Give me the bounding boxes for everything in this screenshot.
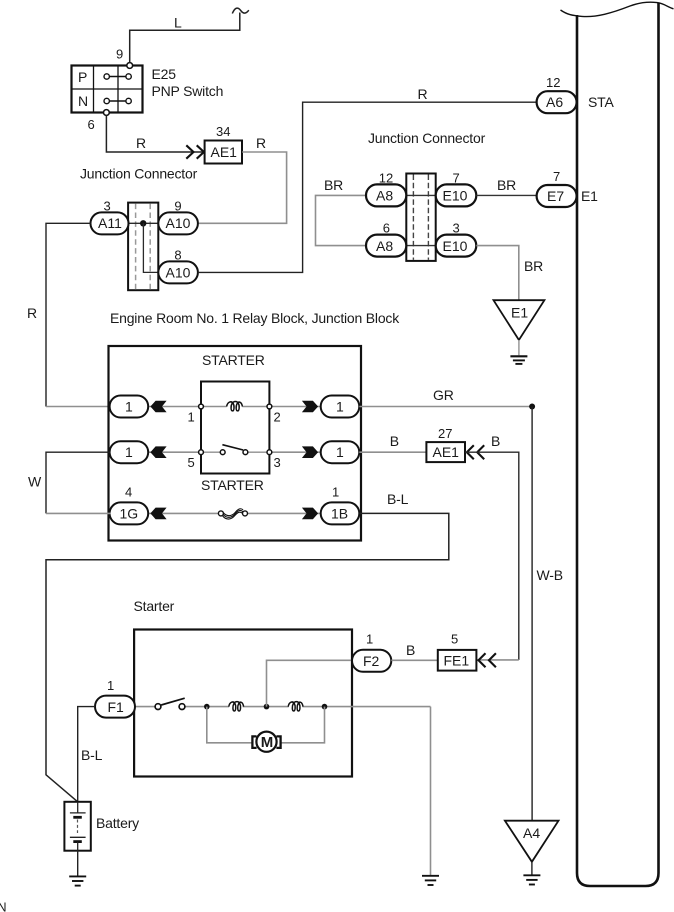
wire W-B [532, 407, 563, 821]
relay pin 3 [267, 450, 272, 455]
svg-text:Starter: Starter [134, 598, 175, 614]
svg-text:E1: E1 [581, 188, 598, 204]
svg-text:Battery: Battery [96, 815, 139, 831]
svg-text:1: 1 [336, 399, 344, 415]
starter coil 1 [229, 702, 244, 711]
oval F1 pin 1 [95, 678, 135, 718]
wire AE1(34) to A10(9), gray [198, 152, 287, 223]
wire A10(8) to A6 (R) [198, 86, 537, 273]
node junction dot GR/W-B [529, 404, 535, 410]
svg-text:A4: A4 [523, 825, 540, 841]
svg-text:A10: A10 [166, 215, 191, 231]
svg-text:Junction Connector: Junction Connector [80, 166, 198, 182]
connector FE1 (5) with << chevrons [438, 632, 496, 671]
svg-text:1: 1 [125, 444, 133, 460]
wire GR [359, 387, 532, 407]
BR loop wire A8(12) to A8(6) [316, 177, 367, 246]
svg-text:F1: F1 [108, 699, 125, 715]
motor loop wires [207, 707, 253, 743]
wire F2 internal [267, 660, 353, 706]
svg-text:12: 12 [379, 171, 393, 186]
wire L (pin 9 to break) [130, 8, 249, 63]
svg-text:6: 6 [383, 221, 390, 236]
arrow right row2 [302, 446, 318, 458]
relay pin 1 [199, 404, 204, 409]
arrow right row1 [302, 401, 318, 413]
wire dot to A10(8) [143, 223, 158, 272]
oval 1 row1 left [110, 396, 149, 418]
svg-text:B: B [491, 433, 500, 449]
oval 1 row2 left [110, 441, 149, 463]
svg-text:1: 1 [336, 444, 344, 460]
svg-text:A10: A10 [166, 264, 191, 280]
starter switch [155, 698, 185, 709]
svg-text:BR: BR [324, 177, 343, 193]
wire A11 to relay oval (R) [27, 223, 111, 406]
svg-text:R: R [418, 86, 428, 102]
svg-text:5: 5 [451, 632, 458, 647]
oval A10 pin 9 [158, 199, 198, 235]
svg-text:BR: BR [524, 258, 543, 274]
svg-text:B-L: B-L [81, 747, 103, 763]
ground triangle E1 [494, 300, 545, 364]
svg-text:L: L [174, 15, 182, 31]
oval E10 pin 3 [436, 221, 477, 257]
oval 1 row1 right [321, 396, 360, 418]
svg-text:B: B [406, 642, 415, 658]
pin 6 [104, 110, 110, 116]
svg-text:5: 5 [188, 455, 195, 470]
svg-text:7: 7 [453, 171, 460, 186]
svg-text:W: W [28, 474, 42, 490]
svg-text:A8: A8 [376, 188, 393, 204]
svg-text:7: 7 [553, 169, 560, 184]
svg-text:12: 12 [546, 75, 560, 90]
wire B-L from 1B to battery [46, 491, 449, 802]
svg-text:1: 1 [125, 399, 133, 415]
main row wire in starter [135, 706, 155, 708]
oval 1B pin 1 [321, 485, 360, 525]
oval A8 pin 6 [366, 221, 406, 257]
svg-text:STARTER: STARTER [201, 477, 264, 493]
svg-text:B: B [390, 433, 399, 449]
svg-text:E7: E7 [547, 188, 564, 204]
oval 1G pin 4 [110, 485, 149, 525]
PNP switch E25 [72, 47, 224, 133]
svg-text:R: R [27, 305, 37, 321]
battery [64, 802, 139, 851]
wire F2 to FE1 (B) [391, 642, 438, 660]
svg-text:9: 9 [174, 199, 181, 214]
ground (battery) [69, 876, 86, 885]
svg-text:4: 4 [125, 485, 132, 500]
svg-text:P: P [78, 69, 87, 85]
wire AE1(27) to FE1 [465, 452, 519, 660]
svg-text:GR: GR [433, 387, 454, 403]
wire W loop [28, 452, 111, 513]
svg-text:6: 6 [88, 117, 95, 132]
oval 1 row2 right [321, 441, 360, 463]
node junction dot [140, 220, 146, 226]
starter coil 2 [288, 702, 303, 711]
svg-text:FE1: FE1 [444, 652, 470, 668]
row wires (gray) [149, 406, 202, 408]
svg-text:1G: 1G [120, 505, 139, 521]
svg-text:E10: E10 [443, 238, 468, 254]
relay block box [109, 346, 362, 541]
wire B row2 [359, 433, 426, 452]
fuse [218, 509, 247, 519]
svg-text:A11: A11 [98, 215, 122, 231]
ground (starter) [422, 876, 439, 885]
svg-text:STARTER: STARTER [202, 352, 265, 368]
svg-text:E25: E25 [152, 66, 177, 82]
svg-text:M: M [261, 734, 274, 751]
node dot a [204, 704, 210, 710]
svg-text:N: N [78, 93, 88, 109]
svg-text:2: 2 [274, 410, 281, 425]
arrow right row3 [302, 508, 318, 520]
svg-text:AE1: AE1 [211, 144, 238, 160]
svg-text:R: R [136, 135, 146, 151]
svg-text:BR: BR [497, 177, 516, 193]
svg-text:3: 3 [274, 455, 281, 470]
svg-text:AE1: AE1 [433, 444, 460, 460]
svg-text:1: 1 [332, 485, 339, 500]
relay pin 5 [199, 450, 204, 455]
svg-text:34: 34 [216, 124, 230, 139]
oval F2 pin 1 [352, 632, 391, 672]
svg-text:27: 27 [438, 426, 452, 441]
oval E7 pin 7, E1 [537, 169, 599, 207]
svg-text:Engine Room No. 1 Relay Block,: Engine Room No. 1 Relay Block, Junction … [110, 310, 400, 326]
relay switch [204, 445, 268, 455]
oval A11 pin 3 [91, 199, 129, 235]
inner relay box [201, 382, 269, 474]
wire starter to ground [430, 707, 432, 875]
oval A6 pin 12, STA [537, 75, 615, 113]
ground triangle A4 [505, 821, 559, 885]
svg-text:1: 1 [107, 678, 114, 693]
motor M [252, 732, 280, 752]
pin 9 [127, 63, 133, 69]
wire battery to ground [77, 851, 79, 876]
svg-text:E10: E10 [443, 188, 468, 204]
svg-text:STA: STA [588, 94, 614, 110]
arrow left row1 [150, 401, 166, 413]
wire through block [128, 222, 158, 224]
svg-text:PNP Switch: PNP Switch [152, 83, 224, 99]
relay pin 2 [267, 404, 272, 409]
oval A10 pin 8 [158, 248, 198, 284]
svg-text:R: R [256, 135, 266, 151]
svg-text:E1: E1 [511, 305, 528, 321]
svg-text:8: 8 [174, 248, 181, 263]
svg-text:9: 9 [116, 47, 123, 62]
svg-text:F2: F2 [363, 653, 380, 669]
relay coil [201, 402, 269, 411]
wire E10(7) to E7 (BR) [476, 177, 537, 195]
svg-text:1B: 1B [331, 505, 348, 521]
wire E10(3) to E1 ground (BR) [476, 246, 543, 300]
svg-text:W-B: W-B [537, 567, 563, 583]
wire F1 to battery (B-L) [78, 707, 103, 802]
svg-text:1: 1 [366, 632, 373, 647]
svg-text:A6: A6 [546, 94, 563, 110]
arrow left row3 [150, 508, 166, 520]
connector AE1 (34) with >> chevrons [186, 124, 266, 164]
svg-text:Junction Connector: Junction Connector [368, 130, 486, 146]
oval A8 pin 12 [366, 171, 406, 207]
svg-text:3: 3 [453, 221, 460, 236]
svg-text:N: N [0, 901, 7, 912]
wire pin6 to AE1 (R) [106, 115, 204, 152]
node dot c [322, 704, 328, 710]
arrow left row2 [150, 446, 166, 458]
svg-text:A8: A8 [376, 238, 393, 254]
ECU tall block (right side) [561, 2, 674, 886]
node dot b [264, 704, 270, 710]
oval E10 pin 7 [436, 171, 477, 207]
svg-text:1: 1 [188, 410, 195, 425]
svg-text:3: 3 [104, 199, 111, 214]
middle junction block [406, 174, 435, 261]
svg-text:B-L: B-L [387, 491, 409, 507]
left junction block [128, 203, 158, 291]
starter box [134, 630, 352, 777]
connector AE1 (27) with << chevrons [426, 426, 500, 462]
